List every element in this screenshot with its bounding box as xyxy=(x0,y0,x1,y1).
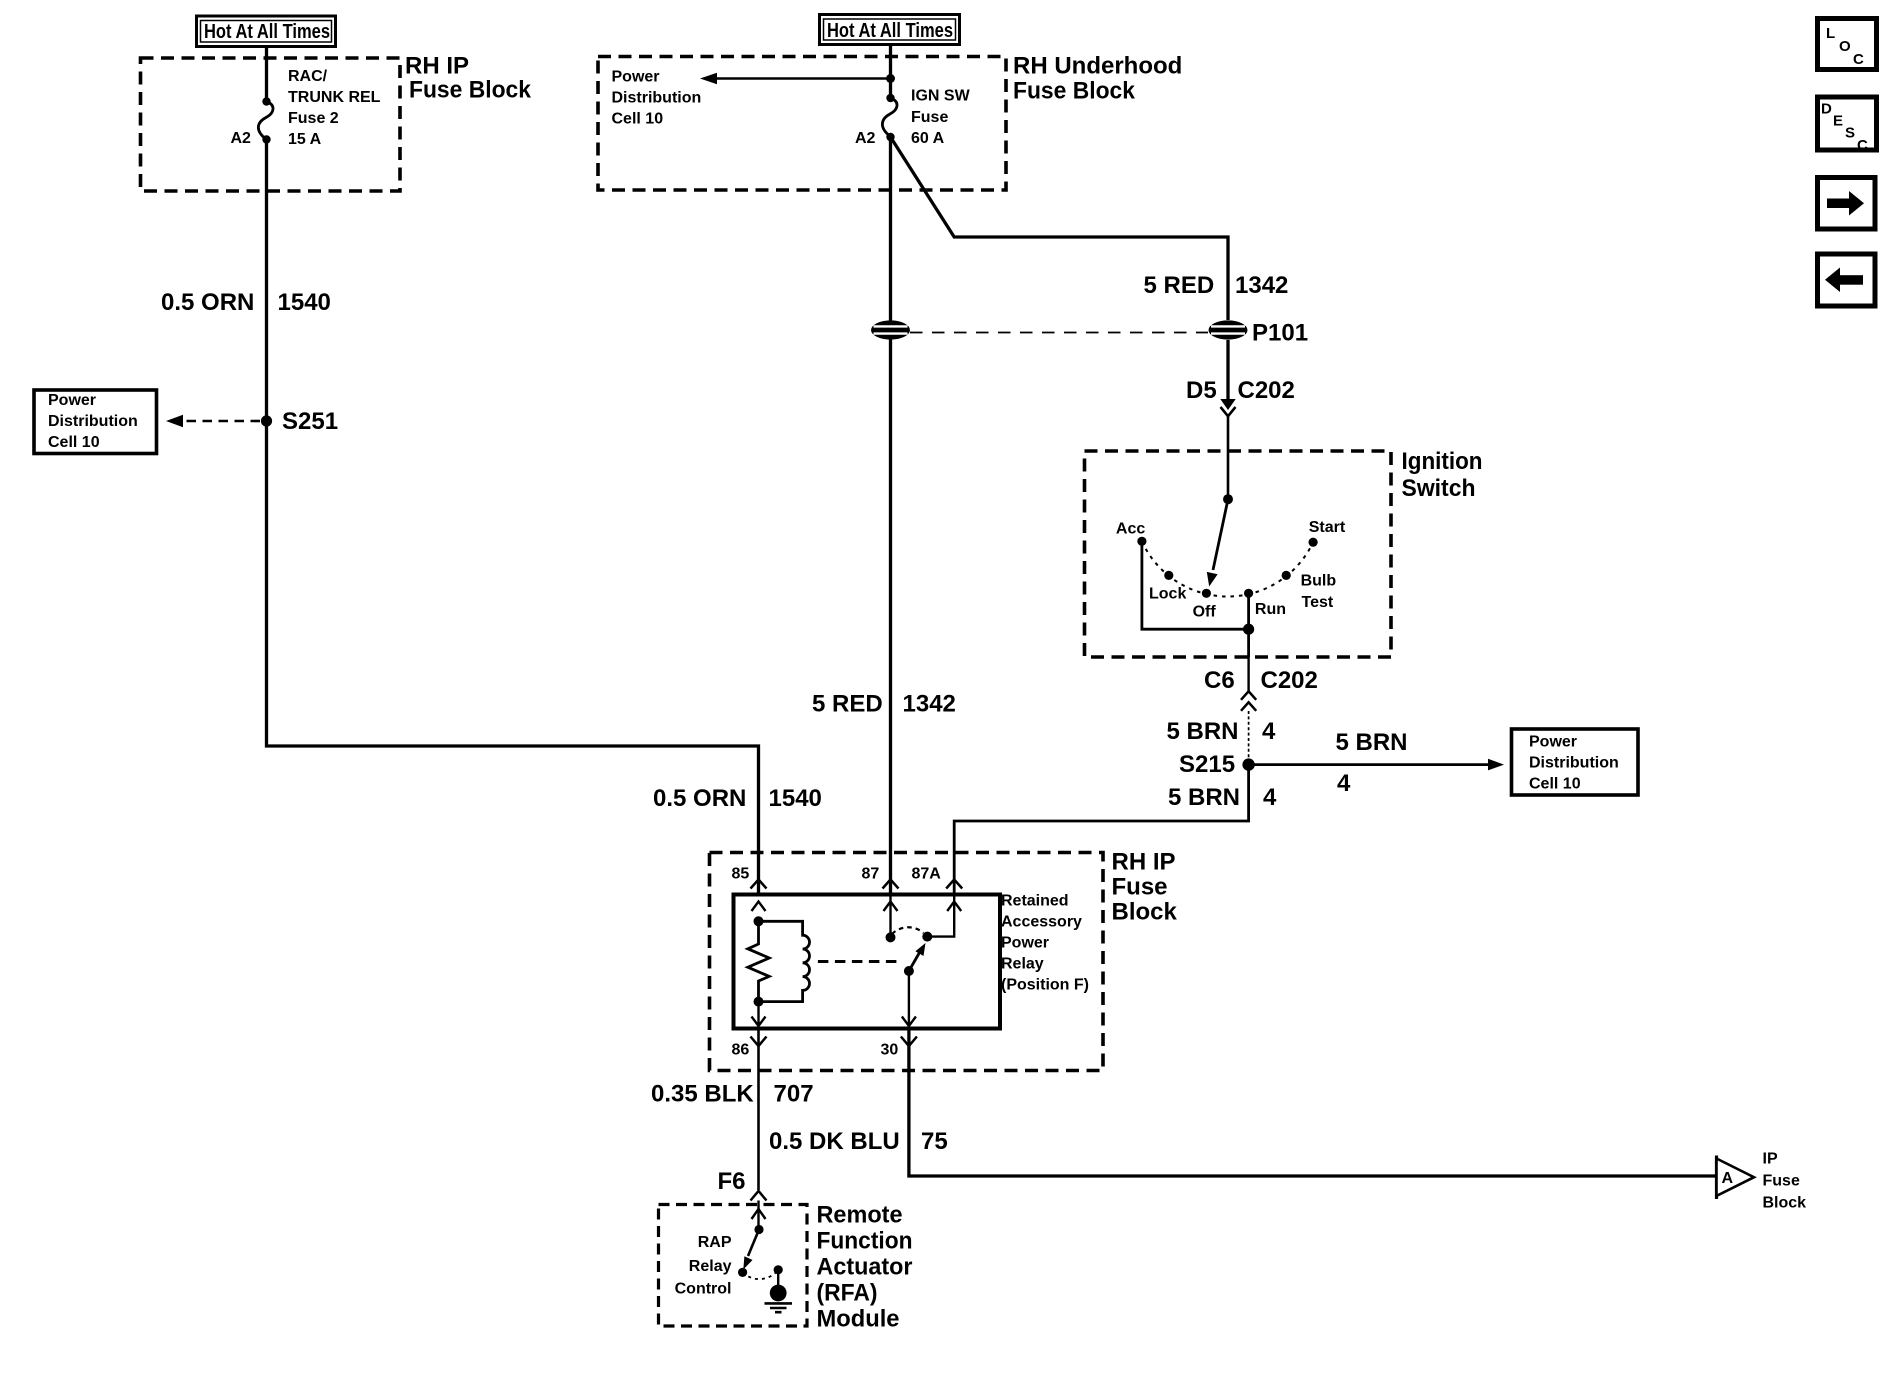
svg-text:5 BRN: 5 BRN xyxy=(1336,729,1408,756)
box Power Distribution Cell 10 (right) xyxy=(1512,729,1639,795)
label RH Underhood Fuse Block xyxy=(1013,53,1182,105)
svg-text:S215: S215 xyxy=(1179,751,1235,778)
svg-text:IP: IP xyxy=(1763,1151,1778,1168)
svg-text:85: 85 xyxy=(732,866,750,883)
value label IGN SW Fuse 60 A xyxy=(911,88,971,148)
svg-text:Power: Power xyxy=(612,69,660,86)
svg-text:C: C xyxy=(1853,51,1864,68)
svg-text:Acc: Acc xyxy=(1116,520,1145,537)
svg-text:IGN SW: IGN SW xyxy=(911,88,971,105)
svg-text:30: 30 xyxy=(881,1042,899,1059)
svg-text:87: 87 xyxy=(862,866,880,883)
svg-text:Fuse Block: Fuse Block xyxy=(1013,78,1136,105)
wire label 0.35 BLK 707 xyxy=(651,1080,814,1107)
svg-text:E: E xyxy=(1833,113,1843,130)
wire 0.5 DK BLU 75 (pin 30 to IP fuse block) xyxy=(909,1028,1717,1176)
wire Acc contact to junction xyxy=(1142,541,1249,629)
node coil top xyxy=(754,916,764,926)
wire 0.5 ORN 1540 (fuse F2 to S251 to relay pin 85) xyxy=(267,140,759,895)
label Lock xyxy=(1149,586,1186,603)
dashed arrow from S251 to Power Distribution xyxy=(166,415,260,427)
node Start xyxy=(1309,538,1318,547)
svg-text:Relay: Relay xyxy=(689,1258,732,1275)
svg-text:Control: Control xyxy=(675,1280,732,1297)
svg-text:Hot At All Times: Hot At All Times xyxy=(204,21,330,43)
label F6 xyxy=(718,1168,746,1195)
svg-text:Lock: Lock xyxy=(1149,586,1186,603)
svg-text:Distribution: Distribution xyxy=(612,90,702,107)
svg-text:(RFA): (RFA) xyxy=(817,1280,878,1307)
svg-text:(Position F): (Position F) xyxy=(1001,977,1089,994)
svg-text:A: A xyxy=(1722,1170,1734,1187)
svg-text:Actuator: Actuator xyxy=(817,1254,913,1281)
svg-text:Test: Test xyxy=(1302,594,1334,611)
wire from Hot-At-All-Times to fuse F2 xyxy=(265,47,268,102)
wire from ignition switch to connector C202 pin C6 xyxy=(1247,657,1249,691)
svg-text:Cell 10: Cell 10 xyxy=(48,434,100,451)
wire label 5 BRN 4 (lower) xyxy=(1168,784,1277,811)
pin label 30 xyxy=(881,1042,899,1059)
svg-text:Accessory: Accessory xyxy=(1001,914,1082,931)
svg-text:A2: A2 xyxy=(855,130,876,147)
svg-text:RAP: RAP xyxy=(698,1234,732,1251)
RH IP Fuse Block (dashed box, relay) xyxy=(710,853,1104,1071)
svg-text:Fuse Block: Fuse Block xyxy=(409,77,532,104)
svg-text:4: 4 xyxy=(1262,718,1276,745)
svg-text:Fuse: Fuse xyxy=(1112,874,1168,901)
RH IP Fuse Block (dashed box, top left) xyxy=(141,58,401,191)
connector chevron pin 30 xyxy=(901,1037,917,1047)
wire blade to pin 30 with arrow xyxy=(902,971,916,1026)
node Lock xyxy=(1164,571,1173,580)
svg-text:5 BRN: 5 BRN xyxy=(1168,784,1240,811)
label IP Fuse Block xyxy=(1763,1151,1807,1212)
node ignition switch input xyxy=(1223,494,1233,504)
wire from Hot-At-All-Times (middle) into fuse block xyxy=(889,45,892,99)
wire label 0.5 ORN 1540 xyxy=(161,289,331,316)
svg-text:Fuse: Fuse xyxy=(911,109,948,126)
svg-text:Fuse 2: Fuse 2 xyxy=(288,110,339,127)
node contact 87 xyxy=(886,932,896,942)
svg-text:0.5 ORN: 0.5 ORN xyxy=(161,289,254,316)
svg-text:Switch: Switch xyxy=(1402,475,1476,502)
svg-text:S251: S251 xyxy=(282,408,338,435)
svg-text:Function: Function xyxy=(817,1228,913,1255)
pin label 85 xyxy=(732,866,750,883)
svg-text:4: 4 xyxy=(1337,770,1351,797)
label Hot At All Times (left) xyxy=(197,16,336,47)
arrow to Power Distribution Cell 10 (internal) xyxy=(700,73,891,84)
svg-text:A2: A2 xyxy=(231,130,252,147)
svg-text:RAC/: RAC/ xyxy=(288,68,328,85)
svg-text:Power: Power xyxy=(48,392,96,409)
relay RAP (solid box) xyxy=(734,895,1001,1029)
svg-text:Ignition: Ignition xyxy=(1402,448,1483,475)
coil winding xyxy=(759,921,810,1001)
pin label A2 (IGN SW fuse) xyxy=(855,130,876,147)
label Off xyxy=(1193,604,1217,621)
icon button LOC xyxy=(1818,19,1877,70)
pin label A2 (fuse F2) xyxy=(231,130,252,147)
label Hot At All Times (middle) xyxy=(820,15,960,45)
svg-text:60 A: 60 A xyxy=(911,130,945,147)
dashed arc RAP switch xyxy=(743,1270,779,1279)
label RAP Relay Control xyxy=(675,1234,732,1297)
arrow wire 5 BRN 4 to Power Distribution (right) xyxy=(1249,759,1504,771)
node Run xyxy=(1244,589,1253,598)
svg-text:Block: Block xyxy=(1763,1195,1807,1212)
label S215 xyxy=(1179,751,1235,778)
svg-text:Power: Power xyxy=(1001,935,1049,952)
svg-text:RH IP: RH IP xyxy=(1112,849,1176,876)
dashed pass-through line P101 xyxy=(910,332,1208,334)
label C6 C202 xyxy=(1204,667,1318,694)
dashed arc between contacts 87 and 87A xyxy=(892,927,924,934)
label Run xyxy=(1255,601,1286,618)
connector chevron pin 86 xyxy=(751,1037,767,1047)
splice node S215 xyxy=(1242,758,1254,770)
Ignition Switch (dashed box) xyxy=(1085,451,1392,657)
svg-text:1540: 1540 xyxy=(769,785,822,812)
svg-text:Distribution: Distribution xyxy=(1529,755,1619,772)
svg-text:S: S xyxy=(1845,125,1855,142)
wire into ignition switch xyxy=(1227,416,1230,499)
fuse F2 RAC/TRUNK REL 15A xyxy=(258,97,273,143)
svg-text:Relay: Relay xyxy=(1001,956,1044,973)
connector chevron pin 85 xyxy=(751,880,767,889)
node junction with arrow branch xyxy=(886,74,895,83)
svg-text:Module: Module xyxy=(817,1306,900,1333)
node blade pivot xyxy=(904,966,914,976)
label RH IP Fuse Block (relay) xyxy=(1112,849,1178,926)
node coil bottom xyxy=(754,997,764,1007)
wire S215 down to relay pin 87A xyxy=(954,765,1248,895)
off-page connector A (IP Fuse Block) xyxy=(1717,1156,1755,1200)
svg-text:Bulb: Bulb xyxy=(1301,572,1337,589)
icon button DESC xyxy=(1818,97,1877,154)
node RAP switch top xyxy=(754,1225,763,1234)
node RAP switch contact xyxy=(738,1268,747,1277)
pin label 87A xyxy=(912,866,942,883)
label Ignition Switch xyxy=(1402,448,1483,502)
RAP relay control input arrow xyxy=(752,1209,766,1219)
svg-text:5 BRN: 5 BRN xyxy=(1167,718,1239,745)
node junction below Run xyxy=(1243,624,1254,635)
ignition switch position arc (dashed) xyxy=(1142,541,1313,596)
svg-text:Start: Start xyxy=(1309,519,1346,536)
svg-text:4: 4 xyxy=(1263,784,1277,811)
node Acc xyxy=(1137,537,1146,546)
wire label 0.5 DK BLU 75 xyxy=(769,1128,948,1155)
relay switch blade xyxy=(909,943,926,971)
wire label 5 RED 1342 (top right) xyxy=(1144,272,1289,299)
svg-text:707: 707 xyxy=(774,1080,814,1107)
svg-text:86: 86 xyxy=(732,1042,750,1059)
connector chevron pin 87A xyxy=(946,880,962,889)
wire 5 RED 1342 (IGN SW fuse down to relay pin 87) xyxy=(889,137,892,895)
label D5 C202 xyxy=(1186,377,1295,404)
svg-text:Block: Block xyxy=(1112,899,1178,926)
label Power Distribution Cell 10 (top middle) xyxy=(612,69,702,128)
label Bulb Test xyxy=(1301,572,1337,611)
grommet (left, on 5 RED wire) xyxy=(871,320,910,339)
svg-text:5 RED: 5 RED xyxy=(1144,272,1215,299)
relay coil input arrow (pin 85) xyxy=(752,902,766,912)
pin label 87 xyxy=(862,866,880,883)
ground xyxy=(765,1270,793,1312)
svg-text:Distribution: Distribution xyxy=(48,413,138,430)
connector C202 pin C6 (double chevron) xyxy=(1241,691,1256,711)
svg-text:Remote: Remote xyxy=(817,1202,903,1229)
svg-text:Cell 10: Cell 10 xyxy=(1529,776,1581,793)
RAP switch blade xyxy=(743,1230,759,1270)
connector chevron pin 87 xyxy=(883,880,899,889)
connector C202 pin D5 (arrow + chevron) xyxy=(1220,399,1235,416)
relay pin 87A arrow and contact xyxy=(927,895,961,937)
svg-text:Retained: Retained xyxy=(1001,893,1069,910)
svg-text:75: 75 xyxy=(921,1128,948,1155)
svg-text:O: O xyxy=(1839,38,1851,55)
svg-text:Power: Power xyxy=(1529,734,1577,751)
wire into RFA module xyxy=(757,1201,759,1230)
svg-text:L: L xyxy=(1826,25,1835,42)
ignition switch blade (to Off) xyxy=(1207,499,1228,586)
svg-text:P101: P101 xyxy=(1252,320,1308,347)
svg-text:Fuse: Fuse xyxy=(1763,1173,1800,1190)
connector chevron pin F6 xyxy=(751,1191,767,1201)
relay coil output arrow (pin 86) xyxy=(752,1002,766,1026)
svg-text:0.5 ORN: 0.5 ORN xyxy=(653,785,746,812)
wire Run contact down xyxy=(1247,593,1250,657)
node Off xyxy=(1202,589,1211,598)
svg-text:F6: F6 xyxy=(718,1168,746,1195)
svg-text:Run: Run xyxy=(1255,601,1286,618)
label Remote Function Actuator (RFA) Module xyxy=(817,1202,913,1333)
wire label 0.5 ORN 1540 (second) xyxy=(653,785,822,812)
svg-text:5 RED: 5 RED xyxy=(812,691,883,718)
svg-text:Off: Off xyxy=(1193,604,1217,621)
svg-text:C6: C6 xyxy=(1204,667,1235,694)
svg-text:C202: C202 xyxy=(1238,377,1295,404)
splice node S251 xyxy=(261,415,272,426)
wire label 5 RED 1342 (middle) xyxy=(812,691,956,718)
icon button back (left arrow) xyxy=(1818,254,1876,306)
node contact 87A xyxy=(922,932,932,942)
wire label 5 BRN 4 (to the right) xyxy=(1336,729,1408,797)
dashed mechanical link coil to blade xyxy=(818,960,901,963)
RH Underhood Fuse Block (dashed box, top middle) xyxy=(598,57,1006,191)
wire 5 BRN 4 (C6 to S215) xyxy=(1248,711,1250,760)
svg-text:RH Underhood: RH Underhood xyxy=(1013,53,1182,80)
wire diagonal branch to right (5 RED) xyxy=(891,137,1229,320)
svg-text:D5: D5 xyxy=(1186,377,1217,404)
svg-text:C202: C202 xyxy=(1261,667,1318,694)
label S251 xyxy=(282,408,338,435)
label P101 xyxy=(1252,320,1308,347)
svg-text:C: C xyxy=(1857,137,1868,154)
node ground contact xyxy=(774,1265,783,1274)
value label RAC/TRUNK REL Fuse 2 15 A xyxy=(288,68,381,148)
label RH IP Fuse Block xyxy=(405,53,532,104)
grommet P101 (right) xyxy=(1209,320,1248,339)
label Acc xyxy=(1116,520,1145,537)
relay pin 87 arrow xyxy=(884,895,898,938)
svg-text:RH IP: RH IP xyxy=(405,53,469,80)
svg-text:1342: 1342 xyxy=(903,691,956,718)
svg-text:0.35 BLK: 0.35 BLK xyxy=(651,1080,754,1107)
svg-text:87A: 87A xyxy=(912,866,942,883)
fuse IGN SW 60A xyxy=(882,94,897,141)
svg-text:0.5 DK BLU: 0.5 DK BLU xyxy=(769,1128,900,1155)
box Power Distribution Cell 10 (left) xyxy=(34,390,157,454)
resistor (relay coil suppression) xyxy=(748,921,769,1001)
wire from P101 to connector C202 pin D5 xyxy=(1226,340,1229,400)
svg-text:1540: 1540 xyxy=(278,289,331,316)
wire 0.35 BLK 707 (pin 86 down to F6) xyxy=(757,1028,760,1190)
svg-text:D: D xyxy=(1821,101,1832,118)
Remote Function Actuator RFA Module (dashed box) xyxy=(659,1205,808,1327)
label Retained Accessory Power Relay (Position F) xyxy=(1001,893,1089,994)
svg-text:Cell 10: Cell 10 xyxy=(612,111,664,128)
svg-text:15 A: 15 A xyxy=(288,131,322,148)
node Bulb Test xyxy=(1282,571,1291,580)
label Start xyxy=(1309,519,1346,536)
svg-text:1342: 1342 xyxy=(1235,272,1288,299)
wire label 5 BRN 4 (upper) xyxy=(1167,718,1277,745)
svg-text:TRUNK REL: TRUNK REL xyxy=(288,89,381,106)
svg-text:Hot At All Times: Hot At All Times xyxy=(827,20,953,42)
pin label 86 xyxy=(732,1042,750,1059)
icon button next (right arrow) xyxy=(1818,178,1876,230)
